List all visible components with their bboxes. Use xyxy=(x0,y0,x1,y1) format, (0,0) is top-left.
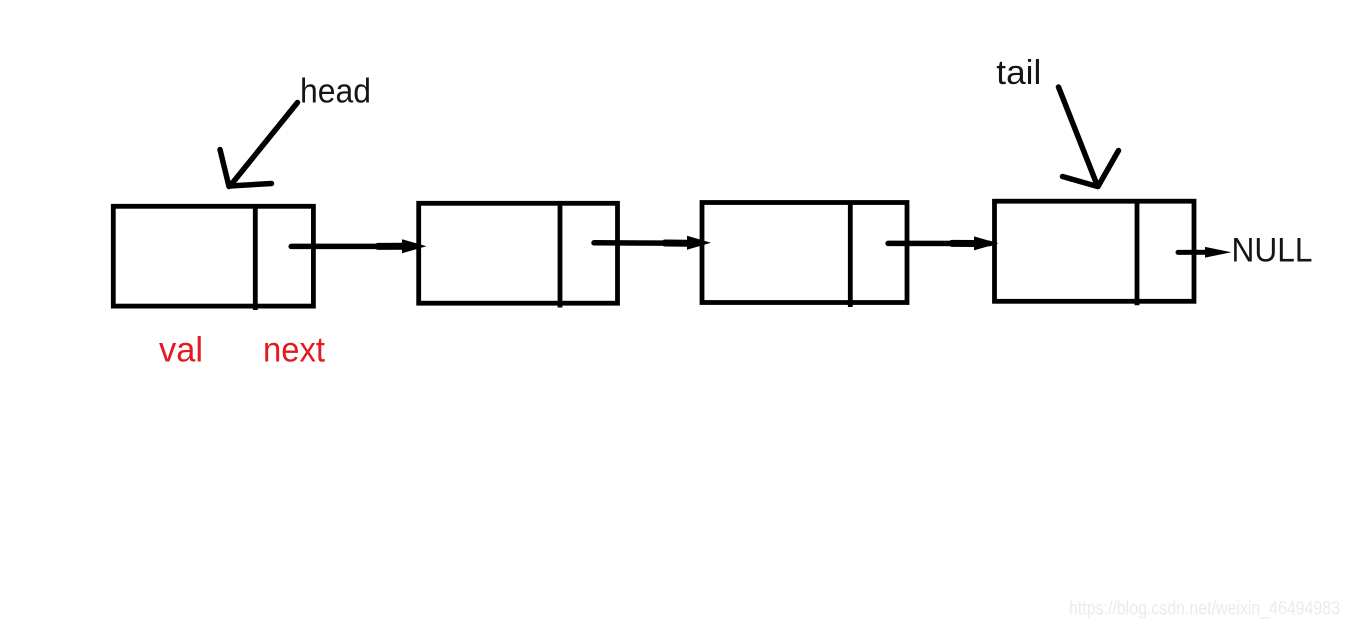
svg-text:NULL: NULL xyxy=(1232,232,1313,270)
svg-text:next: next xyxy=(263,330,325,369)
svg-text:val: val xyxy=(159,330,203,369)
svg-text:https://blog.csdn.net/weixin_4: https://blog.csdn.net/weixin_46494983 xyxy=(1069,599,1340,620)
svg-text:head: head xyxy=(300,73,371,111)
svg-text:tail: tail xyxy=(996,54,1041,92)
